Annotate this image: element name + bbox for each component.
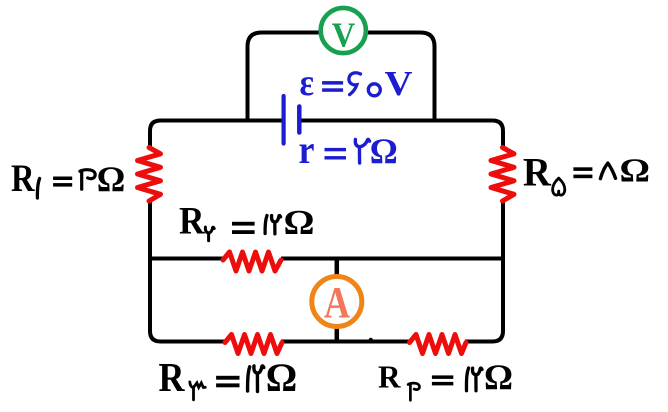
label R1: omega [97, 159, 126, 199]
label R5: subscript Persian 5 (heart) [553, 178, 565, 195]
label R2: equals sign [232, 222, 255, 234]
svg-text:A: A [324, 278, 350, 327]
label epsilon line: equals sign [322, 81, 343, 92]
label R5 = 8 ohm : letter R [523, 150, 552, 195]
label R4: omega [484, 357, 513, 397]
svg-text:Ω: Ω [484, 357, 513, 397]
label R2: subscript Persian 2 [205, 227, 214, 241]
label r line: Persian digit 2 [355, 139, 369, 163]
label R2: omega [284, 204, 315, 242]
svg-text:R: R [523, 150, 552, 195]
wire: middle branch with R2 gap [150, 257, 503, 261]
ammeter letter A [324, 278, 350, 327]
label R3: equals sign [216, 376, 239, 388]
label R1: equals sign [53, 177, 72, 187]
label R1: Persian digit 4 [80, 170, 95, 189]
resistor R2 zigzag [223, 252, 281, 271]
svg-text:Ω: Ω [266, 355, 298, 400]
svg-text:r: r [299, 127, 315, 172]
label epsilon line: letter V [385, 64, 413, 103]
label R5: equals sign [573, 167, 592, 178]
label R2: Persian digit 1 [265, 216, 267, 234]
voltmeter letter V [332, 16, 356, 55]
wire: ammeter vertical branch [335, 259, 340, 342]
svg-text:V: V [385, 64, 413, 103]
ammeter A1 circle [312, 277, 362, 327]
label epsilon line: Persian digit 6 [349, 73, 361, 95]
label R4 = 12 ohm : letter R [378, 359, 401, 395]
label R4: Persian digit 1 [466, 368, 468, 391]
label R2 = 12 ohm : letter R [179, 200, 205, 243]
svg-text:ε: ε [300, 62, 315, 104]
label R5: omega [620, 153, 651, 190]
svg-text:R: R [179, 200, 205, 243]
label R4: subscript Persian 4 [408, 383, 419, 400]
label epsilon line: Persian digit 0 (ring) [368, 84, 380, 96]
wire: voltmeter loop [248, 33, 435, 121]
battery (emf source) long plate [282, 96, 286, 144]
label R3: subscript Persian 3 [190, 382, 205, 400]
label R4: equals sign [432, 375, 453, 385]
voltmeter U1 circle [321, 8, 366, 53]
label r line: equals sign [325, 148, 347, 160]
label R3: omega [266, 355, 298, 400]
junction nub on bottom wire [369, 338, 373, 342]
label R1 = 4 ohm : letter R [11, 157, 35, 200]
svg-text:Ω: Ω [370, 131, 398, 171]
label r line: omega [370, 131, 398, 171]
svg-text:R: R [11, 157, 35, 200]
svg-text:Ω: Ω [284, 204, 315, 242]
battery (emf source) short plate [297, 107, 302, 133]
label R3: Persian digit 2 [254, 366, 264, 392]
svg-text:Ω: Ω [97, 159, 126, 199]
svg-text:Ω: Ω [620, 153, 651, 190]
svg-text:R: R [159, 354, 185, 400]
label R5: Persian digit 8 [600, 163, 615, 178]
label R3: Persian digit 1 [248, 367, 250, 391]
label R3 = 12 ohm : letter R [159, 354, 185, 400]
label r = 2 ohm : letter r [299, 127, 315, 172]
svg-text:R: R [378, 359, 401, 395]
resistor R5 zigzag [491, 148, 514, 202]
wire: bottom branch gaps for R3 R4 are in outer loop? no: bottom is outer loop; cover gaps [226, 339, 465, 345]
label epsilon = 60 V : epsilon [300, 62, 315, 104]
label R4: Persian digit 2 [472, 368, 482, 391]
resistor R1 zigzag [138, 148, 161, 202]
svg-text:V: V [332, 16, 356, 55]
wire: outer loop with battery gap [150, 121, 503, 342]
resistor R3 zigzag [225, 335, 282, 354]
resistor R4 zigzag [410, 335, 467, 354]
label R2: Persian digit 2 [272, 215, 281, 233]
label R1: subscript Persian 1 [37, 179, 39, 199]
